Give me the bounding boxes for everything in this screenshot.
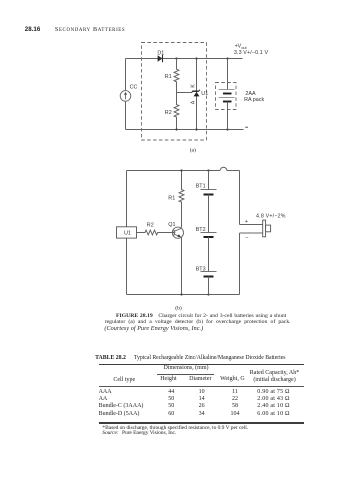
node U1 bottom <box>195 128 197 130</box>
svg-text:R1: R1 <box>165 74 172 80</box>
resistor R2 (a) <box>174 93 179 130</box>
svg-text:D1: D1 <box>157 50 164 56</box>
svg-text:R2: R2 <box>165 110 172 116</box>
svg-text:−: − <box>245 235 248 241</box>
svg-text:U1: U1 <box>201 91 208 97</box>
battery cell 2 (a) <box>219 97 235 99</box>
transistor Q1 <box>172 227 183 238</box>
wire right rail upper (b) <box>239 171 241 225</box>
svg-text:4.8 V+/−2%: 4.8 V+/−2% <box>256 213 286 219</box>
svg-text:U1: U1 <box>124 231 131 237</box>
detector U1 (b) <box>117 227 137 238</box>
wire battery string top <box>208 171 210 190</box>
table rules <box>99 364 304 365</box>
node D1/R1 junction <box>175 57 177 59</box>
svg-text:K: K <box>190 84 196 88</box>
node R1 top (b) <box>180 169 182 171</box>
wire BT3 to bottom rail <box>208 277 210 295</box>
wire battery top lead (a) <box>227 59 229 90</box>
minus terminal label (a) <box>245 126 248 128</box>
battery BT1 <box>201 189 217 191</box>
svg-text:(a): (a) <box>190 146 196 153</box>
wire bottom rail (b) <box>127 294 240 296</box>
svg-text:A: A <box>191 100 197 104</box>
svg-text:+Vout: +Vout <box>235 44 248 50</box>
battery pack dashed box (a) <box>216 83 237 110</box>
node battery bottom (b) <box>207 293 209 295</box>
table rows <box>99 389 112 395</box>
svg-text:BT2: BT2 <box>196 227 206 233</box>
footnotes <box>102 425 248 431</box>
svg-text:+: + <box>245 219 248 225</box>
svg-text:RA pack: RA pack <box>244 97 264 103</box>
battery cell 1 (a) <box>219 89 235 91</box>
battery BT3 <box>201 271 217 273</box>
table headers <box>164 365 209 371</box>
wire BT1-BT2 <box>208 195 210 233</box>
resistor R1 (a) <box>174 59 179 94</box>
node battery top (a) <box>226 57 228 59</box>
svg-text:R1: R1 <box>168 195 175 201</box>
svg-text:BT3: BT3 <box>196 266 206 272</box>
shunt regulator U1 branch wire <box>196 59 198 130</box>
wire battery bottom lead (a) <box>227 102 229 130</box>
resistor R2 (b) <box>137 230 176 235</box>
connector J1 body <box>263 220 266 237</box>
circuit schematic SVG <box>0 0 358 358</box>
wire left branch (a) <box>125 59 127 130</box>
svg-text:BT1: BT1 <box>196 184 206 190</box>
shunt regulator U1 (TL431 symbol) <box>194 92 200 96</box>
table title <box>95 355 285 361</box>
svg-text:R2: R2 <box>147 223 154 229</box>
resistor R1 (b) <box>179 171 184 228</box>
figure caption <box>116 313 286 319</box>
svg-text:2AA: 2AA <box>245 91 256 97</box>
svg-text:3.3 V+/−0.1 V: 3.3 V+/−0.1 V <box>234 50 269 56</box>
node battery bottom (a) <box>226 128 228 130</box>
wire plus lead to connector <box>240 224 263 226</box>
wire right rail lower (b) <box>239 233 241 295</box>
svg-text:CC: CC <box>130 85 138 91</box>
wire left branch (b) <box>126 171 128 295</box>
running head <box>25 26 40 33</box>
node emitter bottom (b) <box>180 293 182 295</box>
diode D1 <box>158 55 163 62</box>
current source CC <box>120 91 131 102</box>
wire emitter to bottom rail <box>181 238 183 295</box>
wire reference to U1 <box>177 92 192 94</box>
wire minus lead from connector <box>240 232 263 234</box>
wire bottom rail (a) <box>126 129 244 131</box>
svg-text:Q1: Q1 <box>168 222 175 228</box>
wire top rail (b) with jumper bump <box>127 170 221 172</box>
node battery top (b) <box>207 169 209 171</box>
battery BT2 <box>201 232 217 234</box>
wire top rail (a) <box>126 58 243 60</box>
node U1 top <box>195 57 197 59</box>
wire BT2-BT3 <box>208 237 210 272</box>
node R1 bottom rail <box>175 128 177 130</box>
svg-text:(b): (b) <box>175 304 182 311</box>
dashed enclosure (a) <box>142 43 207 141</box>
